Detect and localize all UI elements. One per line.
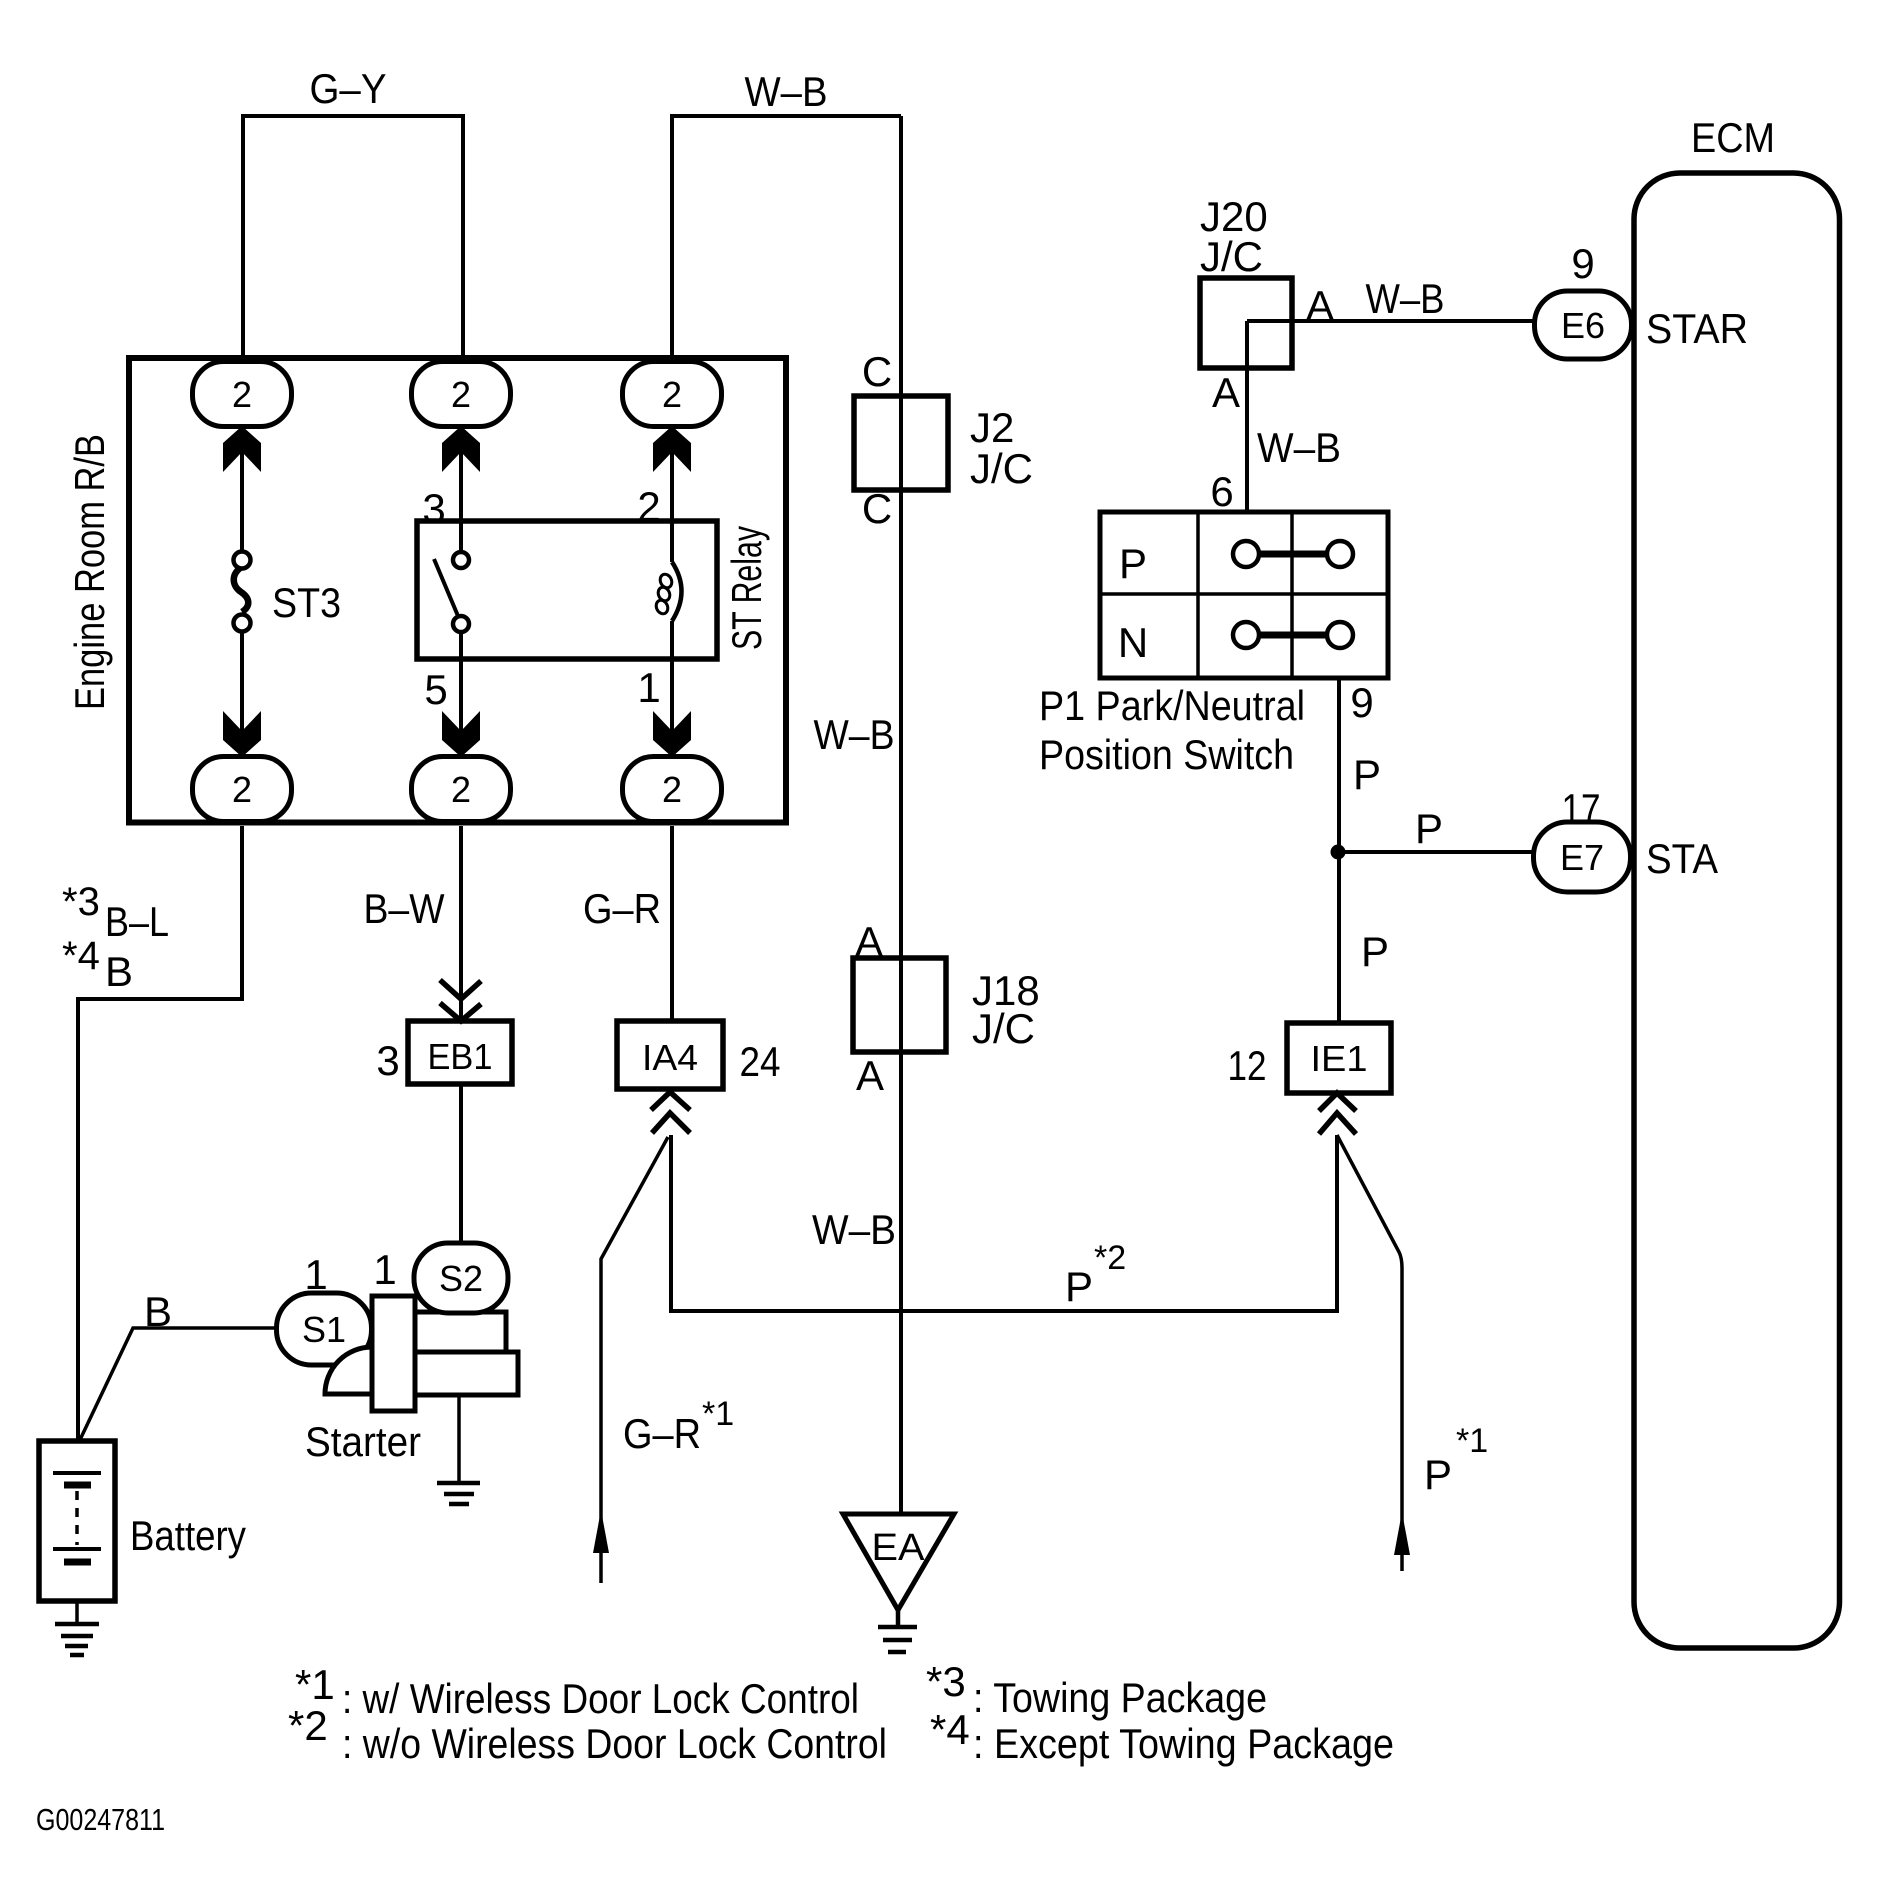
wire W-B from J20 junction down to park/neutral switch pin 6 xyxy=(1245,321,1249,527)
connector 2 oval bottom column3 xyxy=(623,757,722,822)
connector E7 oval on ECM xyxy=(1534,822,1631,892)
arrow up column1 xyxy=(223,426,261,472)
connector S1 oval on starter xyxy=(277,1293,372,1365)
wire W-B main vertical from bracket through J2 and J18 down to EA ground triangle xyxy=(899,116,903,1514)
svg-text:3: 3 xyxy=(376,1037,399,1084)
battery cell 2 short plate xyxy=(64,1559,91,1566)
battery cell 1 short plate xyxy=(64,1482,91,1489)
chevron pair above EB1 xyxy=(440,980,481,1021)
svg-text:*3: *3 xyxy=(62,880,100,924)
svg-text:W–B: W–B xyxy=(814,711,895,758)
svg-text:2: 2 xyxy=(232,374,252,415)
wire column1 upper segment (fusible link ST3 feed) xyxy=(240,358,244,553)
wire from starter body to ground xyxy=(457,1395,461,1481)
switch P1 column dividers xyxy=(1198,512,1292,678)
svg-text:24: 24 xyxy=(740,1038,781,1085)
svg-text:P: P xyxy=(1361,928,1389,975)
svg-text:P1 Park/Neutral: P1 Park/Neutral xyxy=(1039,682,1305,729)
connector 2 oval bottom column1 xyxy=(193,757,292,822)
arrow down column3 xyxy=(653,711,691,757)
wire P from park/neutral switch pin 9 through junction to IE1 xyxy=(1337,678,1341,1023)
svg-text:*2: *2 xyxy=(288,1702,328,1749)
svg-text:P: P xyxy=(1353,751,1381,798)
svg-text:2: 2 xyxy=(232,769,252,810)
wire from battery to ground xyxy=(75,1601,79,1624)
svg-text:2: 2 xyxy=(662,769,682,810)
starter body upper block xyxy=(415,1312,506,1352)
wire column3 upper segment into relay pin 2 xyxy=(670,358,674,562)
junction block J20 xyxy=(1200,278,1292,368)
relay switch fixed contact xyxy=(453,552,469,568)
wire P*2 from below IA4 across to below IE1 xyxy=(671,1135,1337,1311)
connector S2 oval on starter xyxy=(414,1243,508,1313)
connector 2 oval top column3 xyxy=(623,362,722,427)
switch P1 N-row right contact xyxy=(1327,622,1353,648)
wire B from battery to starter terminal S1 xyxy=(78,1328,278,1444)
svg-text:2: 2 xyxy=(662,374,682,415)
wire battery internal stubs xyxy=(75,1441,79,1601)
arrow down column2 xyxy=(442,711,480,757)
connector 2 oval bottom column2 xyxy=(412,757,511,822)
relay coil loop 1 xyxy=(658,572,674,589)
svg-text:1: 1 xyxy=(304,1251,327,1298)
svg-text:IE1: IE1 xyxy=(1311,1038,1368,1079)
svg-text:Position Switch: Position Switch xyxy=(1039,731,1294,778)
wire from EB1 to starter terminal S2 xyxy=(459,1084,463,1245)
svg-text:P: P xyxy=(1119,540,1147,587)
svg-text:1: 1 xyxy=(373,1246,396,1293)
svg-text:P: P xyxy=(1415,805,1443,852)
switch P1 row divider xyxy=(1100,592,1388,596)
svg-text:*1: *1 xyxy=(295,1661,335,1708)
junction block J2 xyxy=(854,396,948,490)
svg-text:3: 3 xyxy=(422,485,445,532)
wire W-B bracket from relay pin2 column to J2 junction column xyxy=(672,116,901,358)
svg-text:C: C xyxy=(862,348,892,395)
svg-text:Battery: Battery xyxy=(130,1512,246,1559)
switch P1 park/neutral position switch box xyxy=(1100,512,1388,678)
fuse ST3 body xyxy=(234,566,249,612)
svg-text:ECM: ECM xyxy=(1691,114,1775,161)
wire G-R*1 with up arrow to IA4 xyxy=(601,1137,668,1583)
wire P from junction to ECM connector E7 xyxy=(1338,850,1535,854)
svg-text:J/C: J/C xyxy=(970,445,1033,492)
svg-text:A: A xyxy=(856,1052,884,1099)
wire column1 between ST3 and lower connector xyxy=(240,631,244,760)
svg-text:9: 9 xyxy=(1350,679,1373,726)
svg-text:STAR: STAR xyxy=(1646,305,1748,352)
svg-text:2: 2 xyxy=(451,769,471,810)
svg-text:B: B xyxy=(144,1288,172,1335)
relay coil loop 2 xyxy=(656,585,672,602)
svg-text:P: P xyxy=(1065,1263,1093,1310)
svg-text:: Towing Package: : Towing Package xyxy=(973,1674,1267,1721)
svg-text:W–B: W–B xyxy=(1257,424,1341,471)
battery cell 1 long plate xyxy=(53,1471,101,1475)
switch P1 P-row contact bar xyxy=(1259,551,1327,558)
starter body lower block xyxy=(415,1352,518,1395)
wire column3 from relay coil pin 1 to lower connector xyxy=(670,621,674,760)
Engine Room R/B junction block box xyxy=(129,358,786,823)
battery box xyxy=(39,1441,115,1601)
switch P1 N-row left contact xyxy=(1233,622,1259,648)
wire W-B from J20 junction to ECM connector E6 xyxy=(1247,319,1535,323)
connector 2 oval top column1 xyxy=(193,362,292,427)
wire B-L/B from lower connector to battery positive xyxy=(78,826,242,1444)
svg-text:*4: *4 xyxy=(62,934,100,978)
svg-text:: w/o Wireless Door Lock Contr: : w/o Wireless Door Lock Control xyxy=(342,1720,887,1767)
svg-text:EB1: EB1 xyxy=(428,1036,493,1077)
node junction of P wire xyxy=(1331,845,1346,860)
svg-text:*1: *1 xyxy=(1456,1422,1488,1460)
chevron pair below IA4 xyxy=(651,1092,690,1133)
svg-text:1: 1 xyxy=(637,664,660,711)
svg-text:Engine Room R/B: Engine Room R/B xyxy=(66,434,113,710)
starter motor quarter-disc xyxy=(325,1347,372,1394)
connector 2 oval top column2 xyxy=(412,362,511,427)
arrow up column3 xyxy=(653,426,691,472)
svg-text:B–L: B–L xyxy=(105,898,169,945)
ground symbol below EA xyxy=(878,1610,917,1652)
svg-text:EA: EA xyxy=(872,1527,926,1569)
ground symbol EA triangle xyxy=(843,1514,954,1610)
wire column2 upper segment into relay pin 3 xyxy=(459,358,463,553)
svg-text:G–Y: G–Y xyxy=(310,65,387,112)
wire column2 from relay pin 5 to lower connector xyxy=(459,631,463,760)
svg-text:B–W: B–W xyxy=(364,885,445,932)
svg-text:: Except Towing Package: : Except Towing Package xyxy=(973,1720,1394,1767)
connector IE1 box xyxy=(1287,1023,1391,1093)
svg-text:STA: STA xyxy=(1646,835,1718,882)
wire B-W from lower connector to EB1 xyxy=(459,826,463,1021)
svg-text:ST3: ST3 xyxy=(272,579,341,626)
relay coil loop 3 xyxy=(654,598,670,615)
svg-text:*1: *1 xyxy=(702,1395,734,1433)
svg-text:: w/ Wireless Door Lock Contro: : w/ Wireless Door Lock Control xyxy=(342,1675,859,1722)
arrowhead on G-R*1 wire xyxy=(593,1510,609,1553)
chevron pair below IE1 xyxy=(1319,1093,1356,1134)
svg-text:W–B: W–B xyxy=(1366,275,1445,322)
svg-text:IA4: IA4 xyxy=(642,1037,698,1078)
battery dashed link xyxy=(75,1491,79,1545)
relay ST Relay box xyxy=(417,521,717,659)
svg-text:2: 2 xyxy=(637,483,660,530)
junction block J18 xyxy=(853,958,946,1052)
fuse ST3 bottom terminal xyxy=(234,615,251,632)
svg-text:B: B xyxy=(105,948,133,995)
relay coil arc xyxy=(672,562,682,621)
fuse ST3 top terminal xyxy=(234,552,251,569)
relay switch blade xyxy=(434,559,458,616)
switch P1 N-row contact bar xyxy=(1259,632,1327,639)
svg-text:S1: S1 xyxy=(302,1309,346,1350)
ground symbol below battery xyxy=(55,1624,99,1655)
svg-text:G–R: G–R xyxy=(623,1410,701,1457)
svg-text:Starter: Starter xyxy=(305,1418,421,1465)
svg-text:W–B: W–B xyxy=(745,68,828,115)
svg-text:ST Relay: ST Relay xyxy=(723,526,770,650)
switch P1 P-row right contact xyxy=(1327,541,1353,567)
svg-text:A: A xyxy=(1306,282,1334,329)
svg-text:S2: S2 xyxy=(439,1258,483,1299)
svg-text:N: N xyxy=(1118,619,1148,666)
starter solenoid plunger xyxy=(372,1296,415,1411)
svg-text:G–R: G–R xyxy=(583,885,661,932)
arrow down column1 xyxy=(223,711,261,757)
svg-text:5: 5 xyxy=(424,666,447,713)
svg-text:C: C xyxy=(862,485,892,532)
relay switch moving contact xyxy=(453,616,469,632)
connector IA4 box xyxy=(617,1021,723,1089)
svg-text:*4: *4 xyxy=(930,1706,970,1753)
svg-text:E6: E6 xyxy=(1561,305,1605,346)
svg-text:A: A xyxy=(1212,369,1240,416)
svg-text:9: 9 xyxy=(1571,240,1594,287)
svg-text:P: P xyxy=(1424,1451,1452,1498)
svg-text:G00247811: G00247811 xyxy=(36,1802,165,1837)
switch P1 P-row left contact xyxy=(1233,541,1259,567)
wire P*1 with up arrow to IE1 xyxy=(1337,1135,1402,1571)
connector E6 oval on ECM xyxy=(1535,291,1632,359)
arrowhead on P*1 wire xyxy=(1394,1512,1410,1555)
svg-text:2: 2 xyxy=(451,374,471,415)
svg-text:J2: J2 xyxy=(970,404,1014,451)
arrow up column2 xyxy=(442,426,480,472)
svg-text:*3: *3 xyxy=(926,1658,966,1705)
svg-text:W–B: W–B xyxy=(812,1206,896,1253)
ECM module outline xyxy=(1634,173,1840,1648)
ground symbol below starter xyxy=(437,1483,480,1504)
svg-text:J/C: J/C xyxy=(972,1005,1035,1052)
svg-text:*2: *2 xyxy=(1094,1239,1126,1277)
svg-text:A: A xyxy=(855,918,883,965)
wire G-Y bracket from fusible link column to relay pin3 column xyxy=(243,116,463,358)
svg-text:J/C: J/C xyxy=(1200,233,1263,280)
svg-text:6: 6 xyxy=(1210,468,1233,515)
svg-text:17: 17 xyxy=(1562,785,1601,832)
battery cell 2 long plate xyxy=(53,1547,101,1551)
svg-text:12: 12 xyxy=(1228,1042,1267,1089)
wire G-R from lower connector to IA4 xyxy=(670,826,674,1021)
connector EB1 box xyxy=(408,1021,512,1084)
svg-text:E7: E7 xyxy=(1560,837,1604,878)
